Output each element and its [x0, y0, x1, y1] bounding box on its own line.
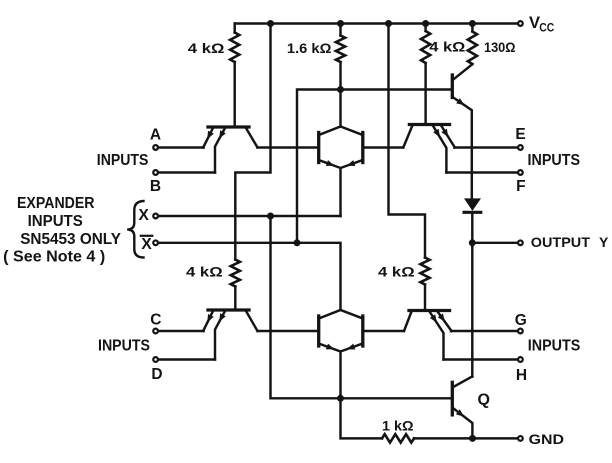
svg-text:4 kΩ: 4 kΩ [378, 264, 415, 280]
svg-text:G: G [515, 312, 527, 329]
svg-text:GND: GND [529, 431, 564, 447]
svg-text:1.6 kΩ: 1.6 kΩ [287, 40, 332, 56]
svg-text:D: D [151, 366, 162, 383]
svg-text:( See Note 4 ): ( See Note 4 ) [3, 249, 105, 266]
svg-text:130Ω: 130Ω [484, 39, 516, 55]
svg-text:H: H [516, 367, 527, 384]
svg-text:F: F [516, 178, 525, 195]
svg-text:4 kΩ: 4 kΩ [188, 40, 225, 56]
svg-text:EXPANDER: EXPANDER [17, 195, 95, 212]
svg-text:INPUTS: INPUTS [528, 152, 581, 169]
svg-text:1 kΩ: 1 kΩ [382, 417, 414, 433]
svg-text:INPUTS: INPUTS [528, 337, 581, 354]
svg-text:INPUTS: INPUTS [97, 152, 149, 169]
svg-text:E: E [515, 126, 525, 143]
svg-text:A: A [150, 126, 161, 143]
svg-text:4 kΩ: 4 kΩ [429, 39, 465, 55]
svg-text:INPUTS: INPUTS [28, 213, 84, 230]
svg-text:Y: Y [599, 234, 609, 250]
svg-text:SN5453 ONLY: SN5453 ONLY [20, 231, 121, 248]
svg-text:INPUTS: INPUTS [98, 337, 150, 354]
svg-text:B: B [150, 178, 161, 195]
svg-text:Q: Q [477, 392, 489, 409]
svg-text:X: X [139, 207, 150, 224]
svg-text:OUTPUT: OUTPUT [531, 234, 591, 250]
svg-text:4 kΩ: 4 kΩ [186, 264, 223, 280]
svg-text:X: X [141, 236, 152, 253]
svg-text:C: C [150, 312, 161, 329]
svg-text:CC: CC [539, 21, 554, 35]
